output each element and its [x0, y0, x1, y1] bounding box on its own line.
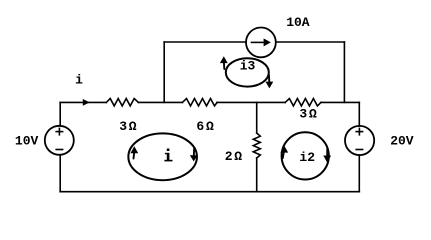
- resistor R3 3ohm: [285, 99, 321, 106]
- svg-text:6Ω: 6Ω: [196, 119, 215, 134]
- mesh i2 down arrow stem: [326, 149, 328, 157]
- wire right upper: [358, 102, 360, 126]
- svg-text:10A: 10A: [286, 15, 310, 30]
- plus sign V2: [356, 131, 362, 133]
- mesh i3 up arrowhead: [220, 56, 228, 63]
- svg-text:3Ω: 3Ω: [119, 119, 138, 134]
- wire upper-loop top left: [164, 41, 246, 43]
- mesh i up arrowhead: [130, 146, 138, 153]
- mesh i down arrowhead: [190, 155, 198, 161]
- plus sign V1: [56, 131, 62, 133]
- current source I1 arrow shaft: [252, 41, 265, 43]
- wire middle branch upper: [256, 102, 258, 133]
- mesh i3 up arrow stem: [223, 62, 225, 69]
- wire between R1 and R2: [138, 101, 182, 103]
- wire upper-loop top right: [276, 41, 345, 43]
- svg-text:i2: i2: [299, 150, 315, 165]
- resistor R2 6ohm: [182, 99, 217, 106]
- wire top-right segment: [321, 101, 359, 103]
- mesh i up arrow stem: [133, 152, 136, 159]
- resistor R4 2ohm: [253, 133, 260, 158]
- mesh loop i2 circle: [282, 132, 329, 179]
- wire right lower: [358, 155, 360, 192]
- mesh loop i3 ellipse: [226, 58, 269, 86]
- minus sign V1: [56, 149, 62, 151]
- mesh i2 up arrow stem: [283, 152, 284, 159]
- wire left upper: [59, 102, 61, 126]
- wire left lower: [59, 155, 61, 192]
- mesh i3 down arrow stem: [268, 75, 270, 83]
- svg-text:2Ω: 2Ω: [225, 149, 244, 164]
- mesh i down arrow stem: [193, 148, 195, 156]
- current source I1 circle: [246, 28, 276, 58]
- mesh i2 down arrowhead: [323, 156, 331, 163]
- svg-text:i3: i3: [240, 58, 256, 73]
- mesh i3 down arrowhead: [266, 82, 274, 89]
- wire upper-loop right vertical: [343, 42, 345, 102]
- svg-text:20V: 20V: [390, 133, 414, 148]
- voltage source V2 circle: [345, 126, 374, 155]
- wire top-left segment: [60, 101, 106, 103]
- svg-text:3Ω: 3Ω: [299, 106, 318, 121]
- branch current i arrowhead on wire: [83, 99, 90, 106]
- mesh i2 up arrowhead: [280, 146, 288, 153]
- label mesh i: [164, 149, 172, 162]
- wire between R2 and R3: [217, 101, 285, 103]
- svg-text:10V: 10V: [15, 133, 39, 148]
- current source I1 arrowhead: [264, 38, 271, 46]
- voltage source V1 circle: [45, 126, 74, 155]
- wire middle branch lower: [256, 158, 258, 192]
- resistor R1 3ohm: [106, 99, 138, 106]
- minus sign V2: [356, 149, 362, 151]
- wire upper-loop left vertical: [163, 42, 165, 102]
- mesh loop i ellipse: [128, 133, 197, 180]
- svg-text:i: i: [75, 72, 83, 87]
- wire bottom: [60, 191, 359, 193]
